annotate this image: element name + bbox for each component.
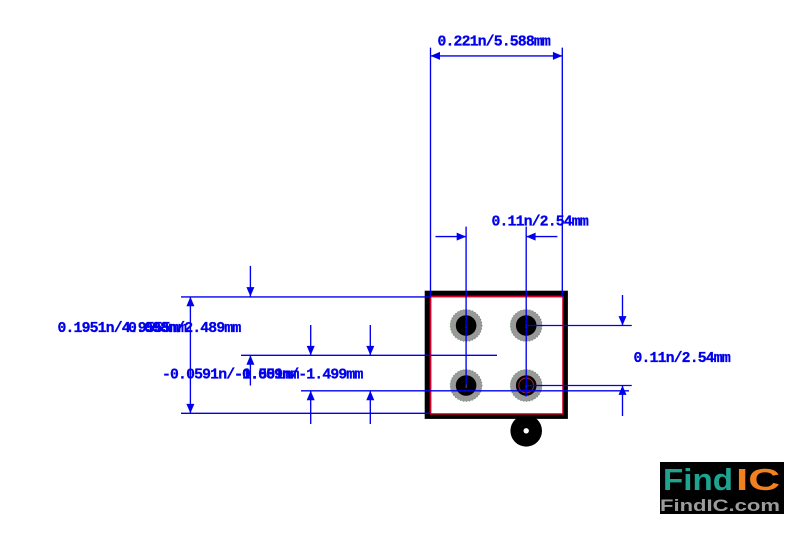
- wire: extension line pad column 1: [465, 227, 467, 386]
- dimension arrow up to line A (0.098n): [246, 355, 254, 385]
- dimension arrow down to line A at x=370: [366, 325, 374, 355]
- label 0.1951n/4.9555mm: [58, 321, 187, 337]
- mounting hole below body: [510, 415, 542, 447]
- dimension arrow up to line B at x=370: [366, 391, 374, 424]
- pad 2 (top-right): [510, 310, 542, 342]
- dimension arrow down to row1 (right 2.54mm): [619, 295, 627, 326]
- wire: top reference line (body top): [181, 296, 431, 298]
- wire: center reference line A: [241, 354, 497, 356]
- component body outline (black courtyard box): [427, 293, 565, 416]
- pad 1 (top-left): [450, 310, 482, 342]
- wire: row 1 extension line to right: [526, 325, 632, 327]
- dimension line 0.1951n height with arrows: [186, 297, 194, 413]
- dimension arrow down to top ref (0.098n): [246, 266, 254, 297]
- svg-text:0.098n/2.489mm: 0.098n/2.489mm: [128, 321, 241, 337]
- dimension arrow right (pitch 2.54mm): [526, 233, 557, 241]
- label -0.0591n/-1.501mm: [162, 367, 299, 383]
- svg-text:0.11n/2.54mm: 0.11n/2.54mm: [634, 351, 731, 367]
- origin marker (red circle on pad 4): [519, 378, 534, 393]
- silkscreen outline (red rectangle): [431, 297, 563, 414]
- svg-text:FindIC.com: FindIC.com: [660, 496, 780, 515]
- wire: row 2 extension line to right: [526, 385, 632, 387]
- svg-text:0.11n/2.54mm: 0.11n/2.54mm: [492, 215, 589, 231]
- wire: bottom reference line (body bottom): [181, 412, 430, 414]
- pad 4 (bottom-right, origin): [510, 370, 542, 402]
- dimension arrow down to line A at x=310: [307, 325, 315, 355]
- dimension line 0.221n/5.588mm with arrows: [431, 52, 563, 60]
- svg-text:Find: Find: [663, 462, 733, 497]
- wire: extension line right of width dimension: [561, 48, 563, 297]
- wire: extension line pad column 2: [525, 227, 527, 397]
- label 0.221n/5.588mm: [438, 34, 551, 50]
- dimension arrow left (pitch 2.54mm): [436, 233, 467, 241]
- FindIC logo: [660, 462, 784, 515]
- wire: extension line left of width dimension: [430, 48, 432, 297]
- svg-text:0.221n/5.588mm: 0.221n/5.588mm: [438, 34, 551, 50]
- wire: reference line B: [301, 390, 629, 392]
- dimension arrow up to line B at x=310: [307, 391, 315, 424]
- label 0.11n/2.54mm (horizontal pitch): [492, 215, 589, 231]
- label 0.11n/2.54mm (vertical pitch): [634, 351, 731, 367]
- pad 3 (bottom-left): [450, 370, 482, 402]
- svg-text:IC: IC: [736, 462, 780, 497]
- dimension arrow up to row2 (right 2.54mm): [619, 386, 627, 417]
- label 0.098n/2.489mm (overlapping): [128, 321, 241, 337]
- svg-text:-0.059n/-1.499mm: -0.059n/-1.499mm: [234, 367, 363, 383]
- label -0.059n/-1.499mm (overlapping): [234, 367, 363, 383]
